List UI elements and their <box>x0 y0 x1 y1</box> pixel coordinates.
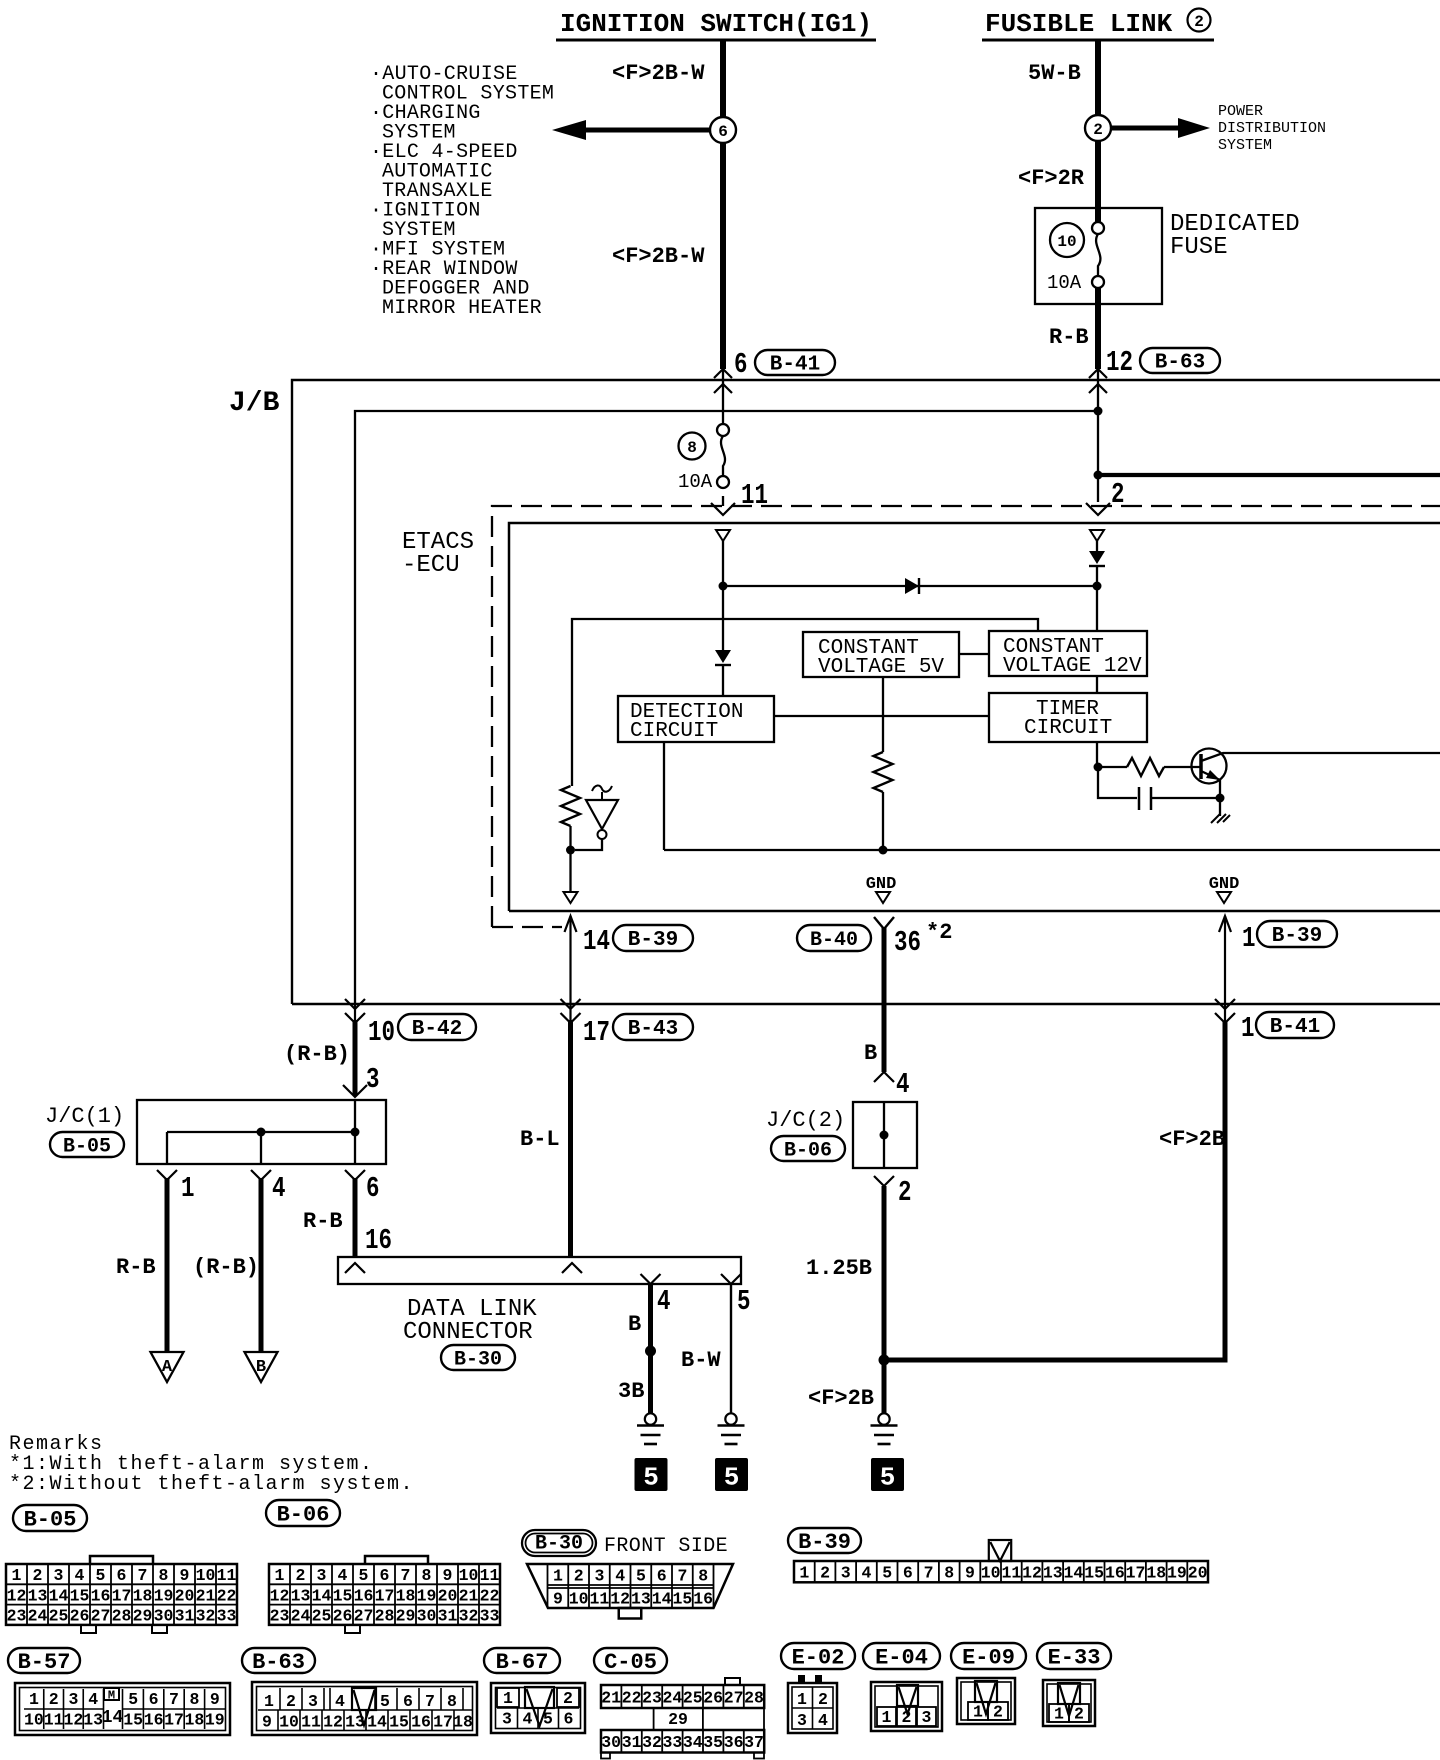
svg-text:-ECU: -ECU <box>402 552 460 579</box>
svg-text:15: 15 <box>123 1711 143 1730</box>
pin 14 of connector B-39 with arrow <box>569 916 571 1004</box>
connector pinout B-63 <box>242 1648 315 1673</box>
svg-text:B-63: B-63 <box>252 1650 305 1675</box>
svg-text:12: 12 <box>7 1586 27 1605</box>
wire (R-B) to destination B <box>259 1178 264 1352</box>
wire buzzer to node <box>575 839 602 850</box>
svg-text:R-B: R-B <box>1049 325 1089 350</box>
svg-text:15: 15 <box>1084 1564 1104 1583</box>
svg-text:28: 28 <box>112 1607 132 1626</box>
svg-text:3: 3 <box>366 1063 380 1096</box>
block CONSTANT VOLTAGE 5V <box>803 632 959 677</box>
svg-text:16: 16 <box>1105 1564 1125 1583</box>
svg-text:27: 27 <box>354 1607 374 1626</box>
svg-text:17: 17 <box>583 1016 610 1049</box>
svg-text:2: 2 <box>898 1176 912 1209</box>
wire from pin 12 down to ECU pin 2 <box>1097 369 1099 502</box>
svg-text:26: 26 <box>70 1607 90 1626</box>
svg-text:3: 3 <box>54 1566 64 1585</box>
svg-text:10: 10 <box>569 1590 589 1609</box>
svg-text:10: 10 <box>459 1566 479 1585</box>
svg-text:3: 3 <box>502 1710 512 1729</box>
svg-text:6: 6 <box>657 1567 667 1586</box>
svg-text:B-39: B-39 <box>798 1530 851 1555</box>
fuse element F10 <box>1092 222 1104 234</box>
svg-text:1: 1 <box>797 1690 807 1709</box>
svg-text:3: 3 <box>797 1711 807 1730</box>
destination arrow A <box>151 1352 184 1382</box>
svg-text:2: 2 <box>296 1566 306 1585</box>
svg-text:2: 2 <box>993 1703 1003 1722</box>
svg-text:M: M <box>108 1689 115 1703</box>
svg-text:16: 16 <box>354 1586 374 1605</box>
svg-text:4: 4 <box>818 1711 828 1730</box>
diode D1 on wire 2 <box>1096 541 1098 552</box>
svg-text:8: 8 <box>159 1566 169 1585</box>
svg-text:23: 23 <box>270 1607 290 1626</box>
svg-text:24: 24 <box>28 1607 48 1626</box>
svg-text:<F>2R: <F>2R <box>1018 166 1085 191</box>
svg-text:10A: 10A <box>678 471 713 493</box>
wire detection circuit to ground bus <box>663 742 665 850</box>
svg-text:5: 5 <box>724 1463 740 1493</box>
svg-text:15: 15 <box>672 1590 692 1609</box>
ECU input pin triangle wire 11 <box>716 530 730 541</box>
svg-text:6: 6 <box>734 348 748 381</box>
svg-text:10A: 10A <box>1047 272 1082 294</box>
svg-text:4: 4 <box>896 1068 910 1101</box>
svg-text:B-30: B-30 <box>454 1348 502 1371</box>
junction node buzzer <box>566 846 575 855</box>
svg-text:B-41: B-41 <box>1270 1016 1320 1039</box>
connector pinout B-57 <box>8 1648 80 1673</box>
svg-text:E-09: E-09 <box>962 1645 1015 1670</box>
svg-text:4: 4 <box>657 1285 671 1318</box>
svg-text:28: 28 <box>744 1688 764 1707</box>
block DETECTION CIRCUIT <box>618 696 774 742</box>
svg-text:18: 18 <box>1146 1564 1166 1583</box>
svg-text:2: 2 <box>1093 121 1103 139</box>
svg-text:2: 2 <box>286 1692 296 1711</box>
wire timer output <box>1096 742 1098 767</box>
wire fusible link 5W-B vertical <box>1095 41 1101 224</box>
svg-text:10: 10 <box>1057 233 1076 251</box>
svg-text:11: 11 <box>589 1590 609 1609</box>
svg-text:12: 12 <box>323 1713 343 1732</box>
svg-text:13: 13 <box>28 1586 48 1605</box>
svg-text:29: 29 <box>133 1607 153 1626</box>
svg-text:21: 21 <box>601 1688 621 1707</box>
diode D2 on cross link <box>905 578 919 594</box>
svg-text:5: 5 <box>380 1692 390 1711</box>
svg-text:2: 2 <box>1074 1705 1084 1724</box>
svg-text:12: 12 <box>1106 346 1133 379</box>
svg-text:SYSTEM: SYSTEM <box>1218 137 1272 154</box>
svg-text:14: 14 <box>367 1713 387 1732</box>
svg-text:27: 27 <box>91 1607 111 1626</box>
svg-text:C-05: C-05 <box>604 1650 657 1675</box>
wire Q1 emitter <box>1219 780 1221 798</box>
svg-text:15: 15 <box>333 1586 353 1605</box>
junction node J/C(1) b <box>351 1128 360 1137</box>
svg-text:17: 17 <box>112 1586 132 1605</box>
svg-text:17: 17 <box>164 1711 184 1730</box>
pin 4 exit chevron <box>641 1274 661 1284</box>
svg-text:5: 5 <box>882 1564 892 1583</box>
svg-text:19: 19 <box>417 1586 437 1605</box>
svg-text:B-W: B-W <box>681 1348 721 1373</box>
ground G1 data link pin 4 <box>645 1413 656 1424</box>
wire node to pin 14 <box>569 850 571 892</box>
junction node J/C(2) <box>880 1131 889 1140</box>
svg-text:28: 28 <box>375 1607 395 1626</box>
svg-text:1: 1 <box>1241 1012 1255 1045</box>
svg-text:1: 1 <box>275 1566 285 1585</box>
pin 9 entry chevron <box>562 1263 582 1273</box>
wire CV12V to timer <box>1096 676 1098 693</box>
svg-text:B-06: B-06 <box>784 1139 832 1162</box>
svg-text:25: 25 <box>312 1607 332 1626</box>
svg-text:13: 13 <box>631 1590 651 1609</box>
svg-text:18: 18 <box>133 1586 153 1605</box>
svg-text:2: 2 <box>1194 13 1204 31</box>
svg-text:3: 3 <box>308 1692 318 1711</box>
junction node J/C(1) a <box>257 1128 266 1137</box>
svg-text:15: 15 <box>389 1713 409 1732</box>
svg-text:4: 4 <box>861 1564 871 1583</box>
svg-text:19: 19 <box>1167 1564 1187 1583</box>
svg-text:33: 33 <box>480 1607 500 1626</box>
svg-text:R-B: R-B <box>303 1209 343 1234</box>
svg-text:32: 32 <box>196 1607 216 1626</box>
svg-text:29: 29 <box>396 1607 416 1626</box>
transistor Q1 <box>1192 749 1227 784</box>
svg-text:1: 1 <box>882 1708 892 1727</box>
wire B-L pin 17 to data link connector pin 9 <box>569 1004 571 1022</box>
svg-text:14: 14 <box>652 1590 672 1609</box>
wire inside J/C(1) bus <box>167 1131 355 1133</box>
junction node ground wire <box>879 1355 890 1366</box>
svg-text:FRONT SIDE: FRONT SIDE <box>604 1535 728 1558</box>
svg-text:12: 12 <box>270 1586 290 1605</box>
svg-text:26: 26 <box>703 1688 723 1707</box>
svg-text:20: 20 <box>1188 1564 1208 1583</box>
svg-text:9: 9 <box>180 1566 190 1585</box>
svg-text:10: 10 <box>24 1711 44 1730</box>
wire from pin 6 to fuse 8 <box>722 369 724 424</box>
connector crossing B-41 pin 6 <box>714 369 732 378</box>
svg-text:7: 7 <box>138 1566 148 1585</box>
ECU output pin triangle wire 14 <box>564 892 578 903</box>
svg-text:3: 3 <box>594 1567 604 1586</box>
wire B from pin 4 to ground <box>648 1284 653 1413</box>
junction node timer output <box>1094 763 1103 772</box>
svg-text:14: 14 <box>49 1586 69 1605</box>
wire battery feed bus to right <box>1098 473 1440 477</box>
svg-text:1: 1 <box>503 1689 513 1708</box>
junction node emitter <box>1216 794 1225 803</box>
svg-text:B-05: B-05 <box>63 1135 111 1158</box>
svg-text:2: 2 <box>820 1564 830 1583</box>
svg-text:24: 24 <box>662 1688 682 1707</box>
svg-text:1: 1 <box>973 1703 983 1722</box>
svg-text:13: 13 <box>1043 1564 1063 1583</box>
svg-text:19: 19 <box>154 1586 174 1605</box>
resistor R3 base resistor <box>1102 766 1127 768</box>
data link connector box B-30 <box>338 1257 741 1284</box>
wire cross link 11 to 2 <box>723 585 1097 587</box>
svg-text:10: 10 <box>196 1566 216 1585</box>
svg-text:2: 2 <box>49 1690 59 1709</box>
connector pinout B-30 front side <box>522 1530 596 1556</box>
svg-text:21: 21 <box>196 1586 216 1605</box>
resistor R1 buzzer branch <box>561 786 580 826</box>
svg-text:13: 13 <box>83 1711 103 1730</box>
pin 1 of J/C(1) <box>157 1170 177 1180</box>
svg-text:17: 17 <box>433 1713 453 1732</box>
svg-text:31: 31 <box>438 1607 458 1626</box>
diode D3 on wire 11 to detection circuit <box>722 586 724 650</box>
svg-text:23: 23 <box>7 1607 27 1626</box>
svg-text:35: 35 <box>703 1733 723 1752</box>
pin 2 of J/C(2) <box>874 1176 894 1186</box>
svg-text:5: 5 <box>543 1710 553 1729</box>
svg-text:14: 14 <box>312 1586 332 1605</box>
wire branch arrow to power distribution system <box>1111 126 1186 131</box>
svg-text:18: 18 <box>453 1713 473 1732</box>
svg-text:30: 30 <box>601 1733 621 1752</box>
svg-text:31: 31 <box>622 1733 642 1752</box>
connector pinout E-09 <box>951 1643 1026 1669</box>
svg-text:17: 17 <box>375 1586 395 1605</box>
svg-text:29: 29 <box>668 1710 688 1729</box>
pin 6 of J/C(1) <box>345 1170 365 1180</box>
svg-text:5: 5 <box>359 1566 369 1585</box>
svg-text:26: 26 <box>333 1607 353 1626</box>
svg-text:27: 27 <box>724 1688 744 1707</box>
block TIMER CIRCUIT <box>989 693 1147 742</box>
svg-text:11: 11 <box>480 1566 500 1585</box>
svg-text:7: 7 <box>677 1567 687 1586</box>
pin entry chevron wire 2 <box>1086 503 1110 515</box>
svg-text:11: 11 <box>44 1711 64 1730</box>
pin 17 of connector B-43 crossing <box>561 999 581 1009</box>
svg-text:11: 11 <box>301 1713 321 1732</box>
svg-text:6: 6 <box>903 1564 913 1583</box>
svg-text:B-06: B-06 <box>277 1502 330 1527</box>
svg-text:12: 12 <box>63 1711 83 1730</box>
fuse 8 10A in J/B <box>679 433 706 460</box>
dedicated fuse 10 10A box <box>1035 208 1162 304</box>
wire B-W from pin 5 to ground <box>730 1284 732 1413</box>
svg-text:5: 5 <box>128 1690 138 1709</box>
svg-text:B-40: B-40 <box>810 929 858 952</box>
junction node wire 2 <box>1093 582 1102 591</box>
svg-text:*2:Without theft-alarm system.: *2:Without theft-alarm system. <box>9 1473 414 1496</box>
svg-text:3: 3 <box>317 1566 327 1585</box>
splice 6 <box>710 117 736 143</box>
svg-text:37: 37 <box>744 1733 764 1752</box>
ground G2 data link pin 5 <box>725 1413 736 1424</box>
svg-text:4: 4 <box>615 1567 625 1586</box>
svg-text:8: 8 <box>447 1692 457 1711</box>
connector pinout E-04 <box>863 1643 940 1669</box>
svg-text:2: 2 <box>902 1708 912 1727</box>
svg-text:*2: *2 <box>926 920 952 945</box>
svg-text:30: 30 <box>154 1607 174 1626</box>
svg-text:22: 22 <box>217 1586 237 1605</box>
svg-text:7: 7 <box>924 1564 934 1583</box>
wire 2 to constant voltage 12V <box>1096 566 1098 631</box>
page reference 5 for G1 <box>635 1458 668 1491</box>
svg-text:<F>2B-W: <F>2B-W <box>612 244 705 269</box>
ETACS-ECU dashed boundary <box>492 506 1440 927</box>
pin 36 of connector B-40 <box>874 917 894 929</box>
splice 2 <box>1085 115 1111 141</box>
svg-text:5: 5 <box>643 1463 659 1493</box>
svg-text:B-30: B-30 <box>535 1533 583 1556</box>
svg-text:VOLTAGE 12V: VOLTAGE 12V <box>1003 655 1142 678</box>
svg-text:CONNECTOR: CONNECTOR <box>403 1319 533 1346</box>
svg-text:DISTRIBUTION: DISTRIBUTION <box>1218 120 1326 137</box>
svg-text:36: 36 <box>724 1733 744 1752</box>
svg-text:E-04: E-04 <box>875 1645 928 1670</box>
svg-text:B-63: B-63 <box>1155 352 1205 375</box>
svg-text:16: 16 <box>91 1586 111 1605</box>
wire (F)2B from B-41 pin 1 to ground node <box>884 1022 1225 1360</box>
junction node R2 ground bus <box>879 846 888 855</box>
svg-text:1: 1 <box>799 1564 809 1583</box>
pin 1 of connector B-39 with arrow <box>1224 916 1226 1004</box>
wire B from pin 36 to J/C(2) <box>882 1004 887 1072</box>
svg-text:2: 2 <box>818 1690 828 1709</box>
svg-text:9: 9 <box>553 1590 563 1609</box>
svg-text:B-05: B-05 <box>24 1507 77 1532</box>
svg-text:CIRCUIT: CIRCUIT <box>1024 717 1112 740</box>
destination arrow B <box>245 1352 278 1382</box>
svg-text:<F>2B: <F>2B <box>1159 1127 1225 1152</box>
svg-text:J/C(1): J/C(1) <box>45 1104 124 1129</box>
wire R-B pin 10 to J/C(1) pin 3 <box>354 1004 356 1022</box>
wire J/B internal bus to pin 10 <box>355 411 1098 1004</box>
capacitor C1 <box>1098 767 1137 798</box>
svg-text:3B: 3B <box>618 1379 644 1404</box>
svg-text:5: 5 <box>636 1567 646 1586</box>
junction node wire 11 <box>719 582 728 591</box>
svg-text:17: 17 <box>1126 1564 1146 1583</box>
svg-text:B-57: B-57 <box>18 1650 71 1675</box>
pin entry chevron wire 11 <box>711 503 735 515</box>
splice node on wire B <box>645 1346 656 1357</box>
svg-text:24: 24 <box>291 1607 311 1626</box>
wire 11 inside ECU <box>722 541 724 586</box>
svg-text:4: 4 <box>272 1172 286 1205</box>
wire buzzer branch to constant voltage 12V <box>572 619 1038 786</box>
svg-text:22: 22 <box>622 1688 642 1707</box>
svg-text:<F>2B-W: <F>2B-W <box>612 61 705 86</box>
svg-text:1: 1 <box>1242 922 1256 955</box>
buzzer BZ sound generator <box>586 800 618 829</box>
svg-text:1: 1 <box>553 1567 563 1586</box>
svg-text:12: 12 <box>1022 1564 1042 1583</box>
svg-text:11: 11 <box>217 1566 237 1585</box>
svg-text:1: 1 <box>264 1692 274 1711</box>
svg-text:R-B: R-B <box>116 1255 156 1280</box>
svg-text:7: 7 <box>169 1690 179 1709</box>
junction block J/B outline <box>292 380 1440 1004</box>
ETACS-ECU inner box outline <box>509 523 1440 911</box>
svg-text:6: 6 <box>117 1566 127 1585</box>
wire inside J/C(1) pin3 to pin6 <box>354 1100 356 1164</box>
svg-text:16: 16 <box>693 1590 713 1609</box>
pin 5 exit chevron <box>721 1274 741 1284</box>
svg-text:20: 20 <box>438 1586 458 1605</box>
svg-text:6: 6 <box>403 1692 413 1711</box>
svg-text:6: 6 <box>564 1710 574 1729</box>
svg-text:B-L: B-L <box>520 1127 560 1152</box>
svg-text:(R-B): (R-B) <box>284 1042 350 1067</box>
wire R-B below dedicated fuse <box>1095 288 1101 369</box>
svg-text:9: 9 <box>210 1690 220 1709</box>
svg-text:6: 6 <box>380 1566 390 1585</box>
svg-text:3: 3 <box>922 1708 932 1727</box>
wire CV5V output down <box>882 677 884 752</box>
svg-text:30: 30 <box>417 1607 437 1626</box>
svg-text:B-39: B-39 <box>628 929 678 952</box>
svg-text:1: 1 <box>181 1172 195 1205</box>
ground chassis at Q1 emitter <box>1219 798 1221 816</box>
svg-text:13: 13 <box>291 1586 311 1605</box>
svg-text:POWER: POWER <box>1218 103 1263 120</box>
connector pinout C-05 <box>594 1648 667 1673</box>
svg-text:10: 10 <box>981 1564 1001 1583</box>
pin 16 entry chevron <box>345 1263 365 1273</box>
connector pinout E-02 <box>781 1643 855 1669</box>
svg-text:8: 8 <box>687 439 697 457</box>
svg-text:25: 25 <box>683 1688 703 1707</box>
svg-text:7: 7 <box>425 1692 435 1711</box>
svg-text:2: 2 <box>563 1689 573 1708</box>
svg-text:E-02: E-02 <box>792 1645 845 1670</box>
pin 4 of J/C(2) <box>874 1072 894 1082</box>
svg-text:1: 1 <box>29 1690 39 1709</box>
junction connector J/C(1) box <box>137 1100 386 1164</box>
svg-text:5: 5 <box>880 1463 896 1493</box>
svg-text:2: 2 <box>574 1567 584 1586</box>
svg-text:14: 14 <box>102 1708 124 1728</box>
svg-text:10: 10 <box>368 1016 395 1049</box>
svg-text:19: 19 <box>205 1711 225 1730</box>
svg-text:5W-B: 5W-B <box>1028 61 1081 86</box>
ECU input pin triangle wire 2 <box>1090 530 1104 541</box>
svg-text:<F>2B: <F>2B <box>808 1386 874 1411</box>
page reference 5 for G2 <box>715 1458 748 1491</box>
svg-text:A: A <box>162 1358 173 1377</box>
svg-text:(R-B): (R-B) <box>193 1255 259 1280</box>
svg-text:FUSE: FUSE <box>1170 234 1228 261</box>
svg-text:1: 1 <box>1054 1705 1064 1724</box>
page reference 5 for G3 <box>871 1458 904 1491</box>
ground G3 ECU ground <box>878 1413 889 1424</box>
svg-text:4: 4 <box>75 1566 85 1585</box>
wire R-B to destination A <box>165 1178 170 1352</box>
wire R2 to ground bus <box>882 792 884 850</box>
svg-text:15: 15 <box>70 1586 90 1605</box>
wire to J/C(1) pin 1 <box>166 1132 168 1164</box>
svg-text:6: 6 <box>366 1172 380 1205</box>
svg-text:8: 8 <box>944 1564 954 1583</box>
svg-text:9: 9 <box>262 1713 272 1732</box>
